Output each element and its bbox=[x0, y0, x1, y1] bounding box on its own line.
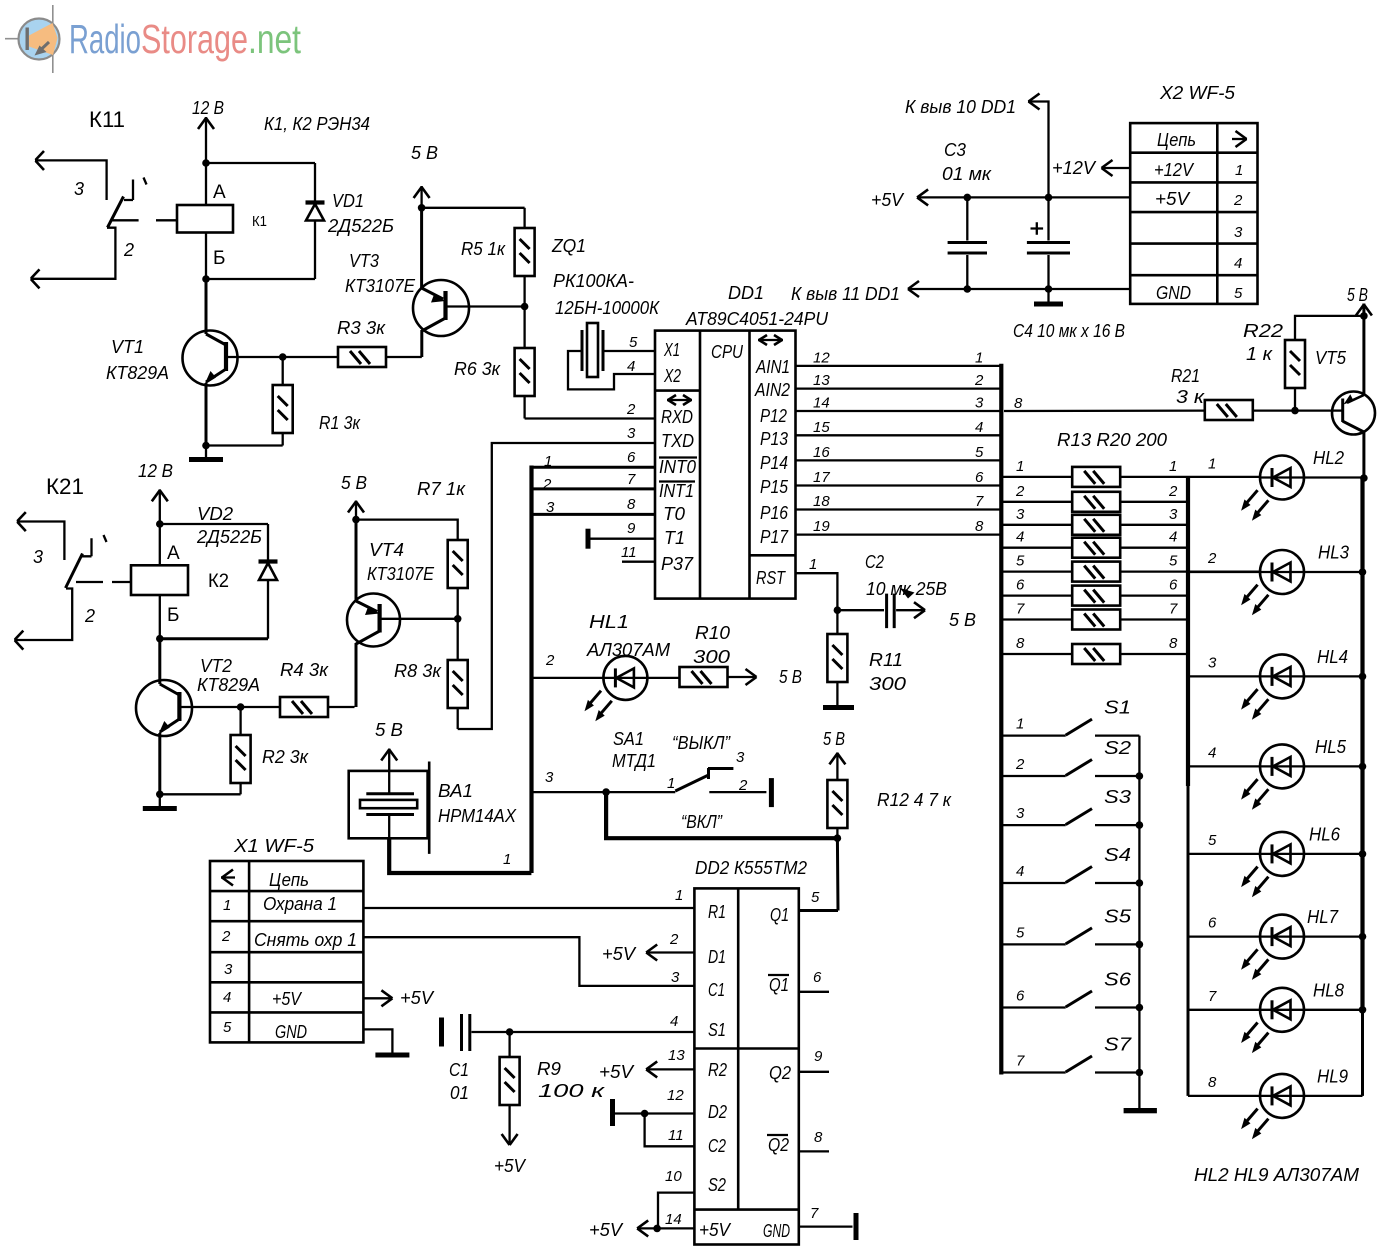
svg-text:НРМ14АХ: НРМ14АХ bbox=[438, 806, 517, 826]
svg-text:S5: S5 bbox=[1104, 906, 1132, 926]
resistor R13 bbox=[1003, 467, 1260, 487]
svg-text:AT89C4051-24PU: AT89C4051-24PU bbox=[685, 309, 829, 329]
wire bbox=[356, 518, 458, 520]
svg-text:7: 7 bbox=[1016, 601, 1025, 618]
wire bbox=[799, 1150, 829, 1152]
svg-text:3: 3 bbox=[33, 547, 43, 567]
svg-text:ВА1: ВА1 bbox=[438, 781, 473, 801]
wire bbox=[363, 907, 694, 909]
svg-text:X1: X1 bbox=[663, 340, 680, 360]
wire bbox=[532, 466, 656, 469]
wire (DD1 pin 14) bbox=[796, 410, 1002, 412]
svg-text:12 В: 12 В bbox=[192, 98, 224, 118]
LED HL7 bbox=[1188, 915, 1363, 980]
svg-text:R1: R1 bbox=[708, 902, 726, 922]
flip-flop DD2 K555TM2 box bbox=[694, 888, 798, 1244]
svg-text:5 В: 5 В bbox=[341, 473, 367, 493]
wire (DD1 pin 19) bbox=[796, 533, 1002, 535]
svg-text:R2 3к: R2 3к bbox=[262, 747, 309, 767]
svg-text:2: 2 bbox=[1015, 756, 1025, 773]
wire (DD1 pin 17) bbox=[796, 484, 1002, 486]
svg-text:VT2: VT2 bbox=[200, 656, 232, 676]
net +5V line bbox=[917, 189, 1130, 205]
node VT3 base node bbox=[521, 303, 529, 311]
svg-text:R11: R11 bbox=[869, 650, 903, 670]
svg-text:2: 2 bbox=[1168, 483, 1178, 500]
svg-text:GND: GND bbox=[1156, 283, 1191, 303]
svg-text:S1: S1 bbox=[708, 1020, 726, 1040]
connector X2 WF-5 bbox=[1130, 123, 1257, 304]
svg-text:18: 18 bbox=[813, 493, 830, 510]
svg-text:5: 5 bbox=[1169, 553, 1178, 570]
capacitor C3 bbox=[948, 197, 987, 289]
buzzer BA1 bbox=[349, 762, 430, 854]
wire bbox=[205, 446, 207, 458]
svg-text:S2: S2 bbox=[708, 1175, 726, 1195]
svg-text:12: 12 bbox=[667, 1087, 684, 1104]
svg-text:5: 5 bbox=[1208, 832, 1217, 849]
wire bbox=[532, 513, 656, 516]
svg-text:Q2: Q2 bbox=[768, 1135, 789, 1155]
svg-text:+5V: +5V bbox=[599, 1062, 635, 1082]
LED HL8 bbox=[1188, 988, 1363, 1053]
resistor R5 bbox=[515, 208, 535, 307]
svg-text:+5V: +5V bbox=[1155, 189, 1191, 209]
svg-text:17: 17 bbox=[813, 469, 830, 486]
svg-text:13: 13 bbox=[668, 1047, 685, 1064]
svg-text:2: 2 bbox=[123, 240, 134, 260]
svg-text:К2: К2 bbox=[208, 571, 229, 592]
resistor R21 bbox=[1004, 400, 1332, 420]
svg-text:Цепь: Цепь bbox=[269, 870, 309, 890]
junction bbox=[1360, 312, 1368, 320]
svg-text:3: 3 bbox=[975, 395, 984, 412]
wire (mech link dashes K1) bbox=[112, 219, 177, 221]
svg-text:РК100КА-: РК100КА- bbox=[553, 271, 634, 291]
svg-text:2: 2 bbox=[84, 606, 95, 626]
svg-text:КТ3107Е: КТ3107Е bbox=[367, 564, 435, 584]
resistor R12 bbox=[827, 780, 847, 838]
svg-text:P12: P12 bbox=[760, 406, 787, 426]
svg-text:5 В: 5 В bbox=[823, 729, 845, 749]
svg-text:12БН-10000К: 12БН-10000К bbox=[555, 298, 660, 318]
wire bbox=[159, 794, 161, 806]
svg-text:1: 1 bbox=[1016, 458, 1024, 475]
junction bbox=[653, 1225, 661, 1233]
LED HL5 bbox=[1188, 744, 1363, 809]
svg-text:5: 5 bbox=[1234, 285, 1243, 302]
svg-text:6: 6 bbox=[1169, 577, 1178, 594]
svg-text:“ВЫКЛ”: “ВЫКЛ” bbox=[672, 733, 731, 753]
svg-text:Охрана 1: Охрана 1 bbox=[263, 894, 337, 914]
wire bbox=[206, 444, 283, 446]
resistor R4 bbox=[241, 697, 355, 717]
svg-text:К выв 10 DD1: К выв 10 DD1 bbox=[905, 97, 1016, 117]
+5V arrow (X1 pin 4) bbox=[363, 990, 392, 1006]
svg-text:S4: S4 bbox=[1104, 845, 1131, 865]
LED HL6 bbox=[1188, 832, 1363, 897]
svg-text:RXD: RXD bbox=[661, 407, 693, 427]
svg-text:R12 4 7 к: R12 4 7 к bbox=[877, 790, 952, 810]
svg-text:2Д522Б: 2Д522Б bbox=[327, 216, 394, 236]
svg-text:AIN2: AIN2 bbox=[754, 380, 790, 400]
svg-text:2: 2 bbox=[1207, 550, 1217, 567]
svg-text:10: 10 bbox=[665, 1168, 682, 1185]
power +5V node (BA1) bbox=[381, 749, 397, 772]
node K2 bottom bbox=[156, 635, 164, 643]
svg-text:+12V: +12V bbox=[1154, 160, 1195, 180]
svg-text:R22: R22 bbox=[1243, 321, 1283, 341]
svg-text:5 В: 5 В bbox=[411, 143, 438, 163]
svg-text:2: 2 bbox=[1015, 483, 1025, 500]
junction bbox=[1359, 1006, 1367, 1014]
ground bbox=[143, 806, 177, 811]
junction bbox=[1136, 1069, 1144, 1077]
svg-text:P17: P17 bbox=[760, 527, 789, 547]
diode VD2 bbox=[259, 524, 278, 639]
+5V arrow (pin 13) bbox=[646, 1061, 694, 1077]
svg-text:Б: Б bbox=[213, 248, 225, 269]
svg-text:R4 3к: R4 3к bbox=[280, 660, 330, 680]
svg-text:13: 13 bbox=[813, 372, 830, 389]
wire bbox=[796, 573, 838, 610]
svg-text:01: 01 bbox=[450, 1083, 469, 1103]
ground bbox=[375, 1053, 409, 1058]
node VT4 base node bbox=[454, 615, 462, 623]
terminator (pin 7 GND) bbox=[799, 1213, 859, 1240]
junction bbox=[964, 194, 972, 202]
node K1 bottom bbox=[202, 275, 210, 283]
svg-text:CPU: CPU bbox=[711, 342, 744, 362]
power +5V node (VT5) bbox=[1356, 304, 1372, 395]
svg-text:+5V: +5V bbox=[400, 988, 435, 1008]
svg-text:1: 1 bbox=[1235, 162, 1243, 179]
svg-text:5: 5 bbox=[629, 334, 638, 351]
junction bbox=[1136, 879, 1144, 887]
node VT1 base node bbox=[279, 353, 287, 361]
svg-text:2: 2 bbox=[974, 372, 984, 389]
svg-text:INT1: INT1 bbox=[659, 481, 694, 501]
relay coil K2 bbox=[131, 524, 188, 639]
svg-text:12: 12 bbox=[813, 349, 830, 366]
junction bbox=[1045, 194, 1053, 202]
LED HL3 bbox=[1188, 550, 1363, 615]
svg-text:S7: S7 bbox=[1104, 1035, 1132, 1055]
svg-text:1: 1 bbox=[503, 851, 511, 868]
bus (port lines group 1) bbox=[999, 364, 1003, 1075]
svg-text:+5V: +5V bbox=[272, 989, 303, 1009]
svg-text:15: 15 bbox=[813, 419, 830, 436]
svg-text:VD1: VD1 bbox=[332, 191, 364, 211]
svg-text:8: 8 bbox=[1208, 1074, 1217, 1091]
svg-text:100 к: 100 к bbox=[538, 1081, 606, 1101]
svg-text:VT1: VT1 bbox=[111, 337, 144, 357]
svg-text:4: 4 bbox=[1016, 863, 1024, 880]
switch S4 bbox=[1003, 867, 1139, 884]
svg-text:10 мк 25В: 10 мк 25В bbox=[866, 579, 947, 599]
svg-text:“ВКЛ”: “ВКЛ” bbox=[681, 812, 723, 832]
svg-text:VT5: VT5 bbox=[1315, 348, 1347, 368]
junction bbox=[202, 442, 210, 450]
svg-text:3: 3 bbox=[627, 425, 636, 442]
terminator (pin 12) bbox=[610, 1099, 694, 1126]
svg-text:Q2: Q2 bbox=[769, 1063, 791, 1083]
svg-text:12 В: 12 В bbox=[138, 461, 173, 481]
svg-text:8: 8 bbox=[814, 1129, 823, 1146]
svg-text:X2: X2 bbox=[663, 366, 681, 386]
relay contact K2.1 bbox=[14, 512, 106, 650]
svg-text:VT4: VT4 bbox=[369, 540, 404, 560]
svg-text:А: А bbox=[167, 543, 180, 564]
LED HL1 bbox=[532, 656, 648, 721]
wire bbox=[525, 417, 655, 419]
switch S3 bbox=[1003, 809, 1139, 826]
resistor R2 bbox=[231, 707, 251, 794]
svg-text:P14: P14 bbox=[760, 453, 788, 473]
wire bbox=[529, 466, 533, 874]
svg-text:DD2 К555ТМ2: DD2 К555ТМ2 bbox=[695, 858, 807, 878]
svg-text:КТ829А: КТ829А bbox=[197, 675, 260, 695]
svg-text:5: 5 bbox=[975, 444, 984, 461]
svg-text:HL2: HL2 bbox=[1313, 448, 1344, 468]
svg-text:5 В: 5 В bbox=[779, 667, 802, 687]
svg-text:7: 7 bbox=[1016, 1053, 1025, 1070]
+12V arrow (X2) bbox=[1102, 160, 1131, 176]
svg-text:А: А bbox=[213, 182, 226, 203]
RadioStorage.net logo bbox=[5, 5, 301, 73]
wire bbox=[645, 1114, 695, 1147]
svg-text:300: 300 bbox=[869, 674, 906, 694]
wire (DD1 pin 12) bbox=[796, 365, 1002, 367]
svg-text:X2 WF-5: X2 WF-5 bbox=[1159, 83, 1236, 103]
svg-text:3: 3 bbox=[1016, 506, 1025, 523]
LED HL9 bbox=[1188, 1074, 1363, 1139]
wire bbox=[532, 487, 656, 490]
svg-text:3: 3 bbox=[74, 179, 84, 199]
wire bbox=[799, 991, 829, 993]
svg-text:1 к: 1 к bbox=[1246, 344, 1274, 364]
svg-text:6: 6 bbox=[975, 469, 984, 486]
svg-text:Цепь: Цепь bbox=[1157, 130, 1196, 150]
svg-text:R1 3к: R1 3к bbox=[319, 413, 361, 433]
svg-text:4: 4 bbox=[627, 358, 635, 375]
switch S2 bbox=[1003, 760, 1139, 777]
junction bbox=[964, 285, 972, 293]
wire bbox=[160, 793, 241, 795]
svg-text:HL2 HL9 АЛ307АМ: HL2 HL9 АЛ307АМ bbox=[1194, 1165, 1359, 1185]
svg-text:+5V: +5V bbox=[494, 1156, 527, 1176]
svg-text:8: 8 bbox=[1169, 635, 1178, 652]
svg-text:6: 6 bbox=[627, 449, 636, 466]
wire (switch common) bbox=[1138, 736, 1140, 1108]
svg-text:К выв 11 DD1: К выв 11 DD1 bbox=[791, 284, 900, 304]
svg-text:6: 6 bbox=[813, 969, 822, 986]
svg-text:8: 8 bbox=[1014, 395, 1023, 412]
svg-text:4: 4 bbox=[670, 1013, 678, 1030]
svg-text:INT0: INT0 bbox=[659, 457, 696, 477]
junction bbox=[1136, 821, 1144, 829]
resistor R1 bbox=[273, 357, 293, 446]
connector X1 WF-5 bbox=[210, 861, 363, 1042]
junction bbox=[1359, 763, 1367, 771]
svg-text:P13: P13 bbox=[760, 429, 788, 449]
svg-text:6: 6 bbox=[1208, 915, 1217, 932]
wire bbox=[206, 162, 315, 164]
svg-text:D1: D1 bbox=[708, 947, 726, 967]
svg-text:2: 2 bbox=[1233, 192, 1243, 209]
svg-text:C2: C2 bbox=[708, 1136, 726, 1156]
resistor R20 bbox=[1003, 644, 1187, 664]
svg-text:TXD: TXD bbox=[661, 431, 694, 451]
junction bbox=[1136, 772, 1144, 780]
resistor R15 bbox=[1003, 515, 1187, 535]
transistor VT3 bbox=[413, 208, 525, 357]
LED HL4 bbox=[1188, 654, 1363, 719]
svg-text:HL9: HL9 bbox=[1317, 1066, 1348, 1086]
switch S7 bbox=[1003, 1056, 1139, 1073]
svg-text:5 В: 5 В bbox=[949, 610, 976, 630]
svg-text:R6 3к: R6 3к bbox=[454, 359, 501, 379]
wire bbox=[160, 523, 268, 525]
node S1 node bbox=[506, 1028, 514, 1036]
node VT5 base node bbox=[1291, 407, 1299, 415]
junction bbox=[1136, 941, 1144, 949]
svg-text:R7 1к: R7 1к bbox=[417, 479, 467, 499]
svg-text:1: 1 bbox=[223, 897, 231, 914]
crystal ZQ1 bbox=[582, 323, 603, 377]
+5V arrow (pin 2) bbox=[646, 945, 694, 961]
svg-text:1: 1 bbox=[809, 556, 817, 573]
resistor R3 bbox=[283, 347, 422, 367]
node K1 top bbox=[202, 159, 210, 167]
wire bbox=[606, 792, 837, 838]
svg-text:HL8: HL8 bbox=[1313, 980, 1344, 1000]
junction bbox=[641, 1110, 649, 1118]
junction bbox=[1045, 285, 1053, 293]
svg-text:Q1: Q1 bbox=[769, 975, 789, 995]
svg-text:+5V: +5V bbox=[871, 190, 905, 210]
resistor R17 bbox=[1003, 562, 1260, 582]
switch SA1 bbox=[532, 768, 774, 807]
ground (switches) bbox=[1124, 1108, 1157, 1113]
resistor R7 bbox=[448, 519, 468, 619]
svg-text:8: 8 bbox=[1016, 635, 1025, 652]
svg-text:11: 11 bbox=[621, 544, 637, 561]
power +12V node (K1) bbox=[198, 117, 214, 163]
svg-text:GND: GND bbox=[275, 1022, 307, 1042]
wire (pin 10 to +5V) bbox=[658, 1193, 694, 1229]
svg-text:14: 14 bbox=[665, 1211, 682, 1228]
node 5V VT4 bbox=[352, 516, 360, 524]
svg-text:RST: RST bbox=[756, 568, 787, 588]
svg-text:X1 WF-5: X1 WF-5 bbox=[233, 836, 315, 856]
wire (mech link dashes K2) bbox=[76, 581, 131, 583]
svg-text:+12V: +12V bbox=[1052, 158, 1097, 178]
svg-text:+5V: +5V bbox=[699, 1220, 732, 1240]
svg-text:+5V: +5V bbox=[589, 1220, 624, 1240]
op-amp U1: MCU DD1 AT89C4051 box bbox=[655, 331, 796, 599]
transistor VT2 bbox=[136, 639, 241, 795]
transistor VT1 bbox=[183, 279, 283, 446]
wire (X1 GND) bbox=[363, 1029, 392, 1052]
svg-text:4: 4 bbox=[1016, 529, 1024, 546]
svg-text:2Д522Б: 2Д522Б bbox=[196, 527, 262, 547]
net К выв 11 DD1 bbox=[908, 281, 1130, 297]
bidirectional mark bbox=[758, 335, 783, 345]
svg-text:P37: P37 bbox=[661, 554, 694, 574]
svg-text:01 мк: 01 мк bbox=[942, 164, 993, 184]
svg-text:C4 10 мк x 16 В: C4 10 мк x 16 В bbox=[1013, 321, 1125, 341]
svg-text:2: 2 bbox=[626, 401, 636, 418]
wire bbox=[206, 278, 315, 280]
wire bbox=[160, 637, 268, 640]
relay coil K1 bbox=[177, 163, 233, 279]
wire bbox=[603, 350, 655, 352]
node VT5 emitter out bbox=[1360, 474, 1368, 482]
svg-text:КТ3107Е: КТ3107Е bbox=[345, 276, 416, 296]
svg-text:1: 1 bbox=[1208, 456, 1216, 473]
svg-text:2: 2 bbox=[669, 931, 679, 948]
svg-text:С1: С1 bbox=[449, 1060, 469, 1080]
net К выв 10 DD1 bbox=[1028, 94, 1049, 198]
svg-text:7: 7 bbox=[1208, 988, 1217, 1005]
svg-text:6: 6 bbox=[1016, 988, 1025, 1005]
svg-text:4: 4 bbox=[223, 989, 231, 1006]
svg-text:2: 2 bbox=[738, 777, 748, 794]
svg-text:1: 1 bbox=[544, 453, 552, 470]
svg-text:300: 300 bbox=[693, 647, 730, 667]
junction bbox=[1359, 933, 1367, 941]
svg-text:2: 2 bbox=[542, 476, 552, 493]
transistor VT4 bbox=[347, 520, 458, 707]
wire (DD1 pin 18) bbox=[796, 508, 1002, 510]
wire bbox=[568, 351, 655, 389]
svg-text:14: 14 bbox=[813, 395, 830, 412]
svg-text:HL4: HL4 bbox=[1317, 647, 1348, 667]
svg-text:VD2: VD2 bbox=[197, 504, 233, 524]
wire (DD1 pin 16) bbox=[796, 459, 1002, 461]
svg-text:5: 5 bbox=[811, 889, 820, 906]
resistor R22 bbox=[1285, 316, 1364, 411]
svg-text:16: 16 bbox=[813, 444, 830, 461]
svg-text:5 В: 5 В bbox=[1347, 285, 1368, 305]
svg-text:7: 7 bbox=[810, 1205, 819, 1222]
resistor R8 bbox=[448, 619, 468, 729]
power +12V node (K2) bbox=[152, 489, 168, 524]
svg-text:МТД1: МТД1 bbox=[612, 751, 656, 771]
node SA1 common bbox=[602, 788, 610, 796]
svg-text:RadioStorage.net: RadioStorage.net bbox=[69, 16, 301, 62]
svg-text:АЛ307АМ: АЛ307АМ bbox=[586, 640, 670, 660]
junction bbox=[1136, 1004, 1144, 1012]
svg-text:4: 4 bbox=[975, 419, 983, 436]
resistor R18 bbox=[1003, 586, 1187, 606]
svg-text:ZQ1: ZQ1 bbox=[551, 236, 586, 256]
svg-text:T0: T0 bbox=[663, 504, 685, 524]
svg-text:Снять охр 1: Снять охр 1 bbox=[254, 930, 357, 950]
wire (DD1 pin 15) bbox=[796, 434, 1002, 436]
svg-text:R8 3к: R8 3к bbox=[394, 661, 443, 681]
svg-text:R2: R2 bbox=[708, 1060, 727, 1080]
power +5V node (R12) bbox=[829, 752, 845, 780]
svg-text:8: 8 bbox=[627, 496, 636, 513]
svg-text:VT3: VT3 bbox=[349, 251, 379, 271]
LED HL2 bbox=[1241, 456, 1362, 521]
resistor R11 bbox=[823, 610, 854, 710]
svg-text:3: 3 bbox=[1208, 654, 1217, 671]
svg-text:3 к: 3 к bbox=[1176, 387, 1206, 407]
svg-text:C1: C1 bbox=[708, 980, 725, 1000]
